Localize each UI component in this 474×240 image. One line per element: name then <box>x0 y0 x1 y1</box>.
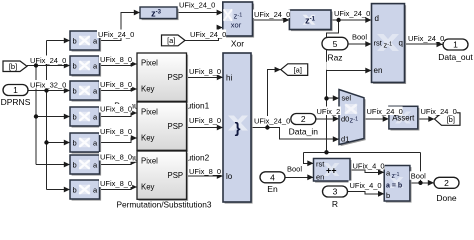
logical block Xor <box>223 2 254 38</box>
comparator block a=b <box>384 166 411 203</box>
inport 3 R <box>323 186 348 197</box>
label UFix_32_0 dprns <box>29 80 66 89</box>
svg-text:d: d <box>375 14 379 23</box>
svg-text:rst: rst <box>374 38 383 47</box>
svg-text:1: 1 <box>453 40 458 50</box>
wire B2 to PSP1 Pixel <box>100 61 138 67</box>
svg-text:UFix_24_0: UFix_24_0 <box>254 10 290 19</box>
wire Comparator output to Done <box>410 180 434 186</box>
label UFix_24_0 b1out <box>97 30 134 39</box>
concat block B2 (b a) <box>70 56 101 77</box>
assert block <box>389 106 420 130</box>
svg-text:}: } <box>235 120 241 137</box>
label UFix_24_0 b-net <box>29 56 66 65</box>
svg-text:b: b <box>73 161 77 170</box>
wire Delay3 output to Xor input1 <box>177 10 223 16</box>
wire Counter output to Comparator a <box>350 169 384 175</box>
svg-text:b: b <box>73 37 77 46</box>
wire B5 to PSP2 Key <box>100 135 138 142</box>
label Bool done <box>410 171 428 180</box>
wire PSP3 output to Concat lo <box>187 173 224 179</box>
inport 4 En <box>260 172 285 183</box>
goto tag [a] <box>281 64 308 76</box>
svg-text:b: b <box>386 191 390 200</box>
label UFix_8_0 PSP2 out <box>188 116 221 125</box>
svg-text:Pixel: Pixel <box>141 58 158 67</box>
wire B3 to PSP1 Key <box>100 86 138 92</box>
svg-text:Key: Key <box>141 182 155 191</box>
svg-text:UFix_4_0: UFix_4_0 <box>350 181 382 190</box>
concat block B6 (b a) <box>70 155 101 176</box>
wire B6 to PSP3 Pixel <box>100 159 138 165</box>
svg-text:PSP: PSP <box>168 122 184 131</box>
outport 1 Data_out <box>443 39 468 50</box>
delay block z-3 <box>140 7 179 20</box>
svg-text:UFix_8_0: UFix_8_0 <box>189 167 221 176</box>
wire From-a to Xor input2 <box>185 25 223 41</box>
svg-text:Permutation/Substitution3: Permutation/Substitution3 <box>116 200 211 210</box>
concat block hi-lo <box>223 53 253 204</box>
label UFix_24_0 xorout <box>253 10 290 19</box>
label UFix_24_0 a-xor <box>189 30 226 39</box>
wire Assert output to Goto-b <box>418 116 435 122</box>
svg-text:UFix_4_0: UFix_4_0 <box>353 161 385 170</box>
svg-text:UFix_8_0: UFix_8_0 <box>100 179 132 188</box>
label UFix_8_0 B4 out <box>99 104 132 113</box>
label UFix_8_0 B6 out <box>99 152 132 161</box>
label UFix_8_0 B3 out <box>99 80 132 89</box>
svg-text:a = b: a = b <box>386 183 402 190</box>
svg-text:UFix_24_0: UFix_24_0 <box>254 116 290 125</box>
svg-text:++: ++ <box>326 166 337 176</box>
from tag [a] <box>162 35 186 46</box>
wire net [b] horizontal to B2 and vertical bus <box>27 63 70 168</box>
label En <box>267 184 278 194</box>
svg-text:UFix_24_0: UFix_24_0 <box>179 1 215 10</box>
delay block z-1 <box>289 10 332 31</box>
counter block ++ (rst en) <box>314 159 352 183</box>
svg-text:[a]: [a] <box>167 36 175 45</box>
label UFix_8_0 PSP3 out <box>188 167 221 176</box>
svg-text:UFix_8_0: UFix_8_0 <box>189 116 221 125</box>
subsystem block Permutation/Substitution3 <box>137 151 188 201</box>
svg-text:hi: hi <box>226 73 232 82</box>
svg-text:UFix_8_0: UFix_8_0 <box>100 152 132 161</box>
svg-text:rst: rst <box>316 160 325 169</box>
wire B4 to PSP2 Pixel <box>100 110 138 116</box>
svg-text:Raz: Raz <box>327 53 342 63</box>
wire net DPRNS horizontal to B3 and vertical bus <box>28 38 70 193</box>
label Bool en <box>286 164 304 173</box>
wire Delay1 output to register d <box>331 17 372 23</box>
label UFix_24_0 z1out <box>333 9 370 18</box>
register block rst z-1 (d rst en q) <box>372 4 407 84</box>
label Xor <box>231 38 244 48</box>
wire R to Comparator b <box>348 191 385 197</box>
svg-text:xor: xor <box>231 21 242 30</box>
label Raz <box>325 52 342 70</box>
wire PSP2 output to Concat mid <box>187 125 224 131</box>
svg-text:Done: Done <box>436 193 457 203</box>
svg-text:Data_in: Data_in <box>289 126 319 136</box>
label UFix_24_0 z3out <box>178 0 215 9</box>
svg-text:q: q <box>399 39 403 48</box>
svg-text:PSP: PSP <box>168 73 184 82</box>
svg-text:UFix_8_0: UFix_8_0 <box>100 55 132 64</box>
wire Raz to register rst <box>348 41 372 47</box>
svg-text:5: 5 <box>333 39 338 49</box>
svg-text:UFix_8_0: UFix_8_0 <box>100 80 132 89</box>
svg-text:4: 4 <box>270 173 275 183</box>
label R <box>332 199 338 209</box>
svg-text:3: 3 <box>333 187 338 197</box>
svg-text:b: b <box>73 113 77 122</box>
label UFix_8_0 B7 out <box>99 179 132 188</box>
goto tag [b] <box>435 113 461 126</box>
wire En to Counter en <box>285 174 314 180</box>
svg-text:En: En <box>267 184 278 194</box>
svg-text:UFix_8_0: UFix_8_0 <box>100 127 132 136</box>
wire control net vertical (en sel rst) <box>304 20 421 183</box>
svg-text:b: b <box>73 87 77 96</box>
label Data_in <box>287 126 320 136</box>
svg-text:lo: lo <box>226 172 233 181</box>
svg-text:[a]: [a] <box>294 65 302 74</box>
svg-text:en: en <box>374 66 383 75</box>
label Permutation/Substitution3 <box>116 200 211 210</box>
svg-text:[b]: [b] <box>447 115 455 124</box>
svg-text:R: R <box>332 199 338 209</box>
svg-text:1: 1 <box>13 85 18 95</box>
svg-text:b: b <box>73 186 77 195</box>
svg-text:Bool: Bool <box>287 164 302 173</box>
wire Concat output to Goto-a and Mux d1 <box>251 67 339 142</box>
svg-text:UFix_8_0: UFix_8_0 <box>100 104 132 113</box>
svg-text:b: b <box>73 139 77 148</box>
label Permutation/Substitution1 <box>107 101 217 111</box>
mux block (sel d0 d1) <box>339 90 366 147</box>
wire Xor output to Delay1 <box>253 17 290 23</box>
wire PSP1 output to Concat hi <box>187 74 224 80</box>
label DPRNS <box>1 97 31 107</box>
label UFix_8_0 B2 out <box>99 55 132 64</box>
svg-text:UFix_32_0: UFix_32_0 <box>30 80 66 89</box>
label UFix_8_0 B5 out <box>99 127 132 136</box>
svg-text:UFix_24_0: UFix_24_0 <box>421 107 457 116</box>
svg-text:PSP: PSP <box>168 171 184 180</box>
svg-text:UFix_24_0: UFix_24_0 <box>334 9 370 18</box>
svg-text:Pixel: Pixel <box>141 107 158 116</box>
svg-text:sel: sel <box>342 94 352 103</box>
label UFix_24 datain <box>316 107 341 116</box>
inport 1 DPRNS <box>3 85 28 96</box>
svg-text:2: 2 <box>444 178 449 188</box>
label UFix_4_0 counter <box>352 161 385 170</box>
wire register q to Data_out <box>405 41 443 47</box>
svg-text:[b]: [b] <box>9 62 17 71</box>
svg-text:en: en <box>316 173 324 182</box>
label Done <box>436 193 457 203</box>
inport 5 Raz <box>322 37 348 50</box>
concat block B3 (b a) <box>70 81 101 102</box>
svg-text:UFix_24_0: UFix_24_0 <box>367 107 403 116</box>
concat block B1 (b a) <box>70 31 101 52</box>
label UFix_24_0 concatout <box>253 116 290 125</box>
svg-text:UFix_24_0: UFix_24_0 <box>190 30 226 39</box>
label Bool raz <box>351 32 369 41</box>
svg-text:Bool: Bool <box>352 32 367 41</box>
svg-text:Xor: Xor <box>231 38 244 48</box>
subsystem block Permutation/Substitution2 <box>137 102 188 152</box>
svg-text:Key: Key <box>141 133 155 142</box>
svg-text:UFix_24_0: UFix_24_0 <box>408 34 444 43</box>
wire Data_in to Mux d0 <box>316 116 339 122</box>
wire Mux output to Assert <box>364 116 389 122</box>
svg-text:UFix_8_0: UFix_8_0 <box>189 67 221 76</box>
svg-text:2: 2 <box>301 114 306 124</box>
from tag [b] <box>3 61 27 72</box>
concat block B4 (b a) <box>70 107 101 128</box>
outport 2 Done <box>434 177 459 188</box>
label Data_out <box>438 52 473 62</box>
label UFix_24_0 assertout <box>420 107 457 116</box>
concat block B7 (b a) <box>70 180 101 201</box>
wire B1 output to Delay3 <box>100 10 141 41</box>
wire B7 to PSP3 Key <box>100 184 138 190</box>
svg-text:UFix_24_0: UFix_24_0 <box>98 30 134 39</box>
label UFix_24_0 muxout <box>366 107 403 116</box>
inport 2 Data_in <box>291 114 316 125</box>
svg-text:UFix_2: UFix_2 <box>317 107 341 116</box>
label UFix_8_0 PSP1 out <box>188 67 221 76</box>
svg-text:d0: d0 <box>341 115 349 124</box>
svg-text:DPRNS: DPRNS <box>1 97 31 107</box>
subsystem block Permutation/Substitution1 <box>137 53 188 103</box>
svg-text:Pixel: Pixel <box>141 156 158 165</box>
label UFix_4_0 r <box>349 181 382 190</box>
svg-text:Data_out: Data_out <box>438 52 473 62</box>
svg-text:d1: d1 <box>341 135 349 144</box>
svg-text:b: b <box>73 62 77 71</box>
svg-text:Key: Key <box>141 84 155 93</box>
svg-text:Bool: Bool <box>411 172 426 181</box>
concat block B5 (b a) <box>70 133 101 154</box>
label UFix_24 qout <box>407 34 444 43</box>
label Permutation/Substitution2 <box>107 153 217 163</box>
